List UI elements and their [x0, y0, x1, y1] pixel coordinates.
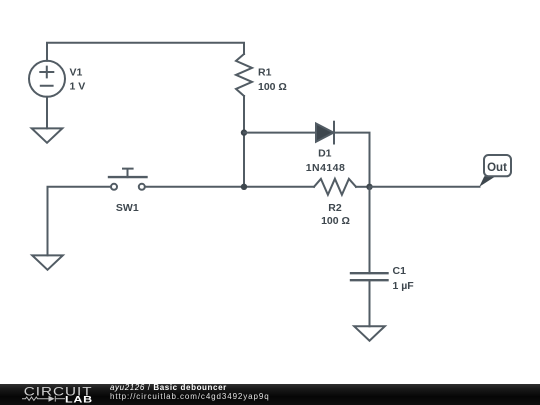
wire top rail from V1 to R1 — [47, 43, 244, 61]
footer bar — [0, 384, 540, 405]
ground under V1 — [32, 128, 63, 142]
svg-text:C1: C1 — [393, 265, 407, 277]
svg-text:R1: R1 — [258, 67, 272, 79]
resistor R1 — [236, 54, 252, 96]
capacitor C1 — [351, 273, 388, 280]
wire V1 bottom to ground — [46, 97, 48, 129]
switch SW1 — [109, 169, 147, 190]
wire switch left to ground drop — [48, 187, 111, 256]
resistor R2 — [314, 179, 356, 195]
ground under C1 — [354, 326, 385, 340]
node junction at R1/diode branch — [241, 129, 247, 135]
svg-text:V1: V1 — [70, 66, 83, 78]
wire diode branch left — [244, 132, 316, 134]
node junction at switch line — [241, 184, 247, 190]
wire node to Out flag — [370, 186, 480, 188]
svg-text:100 Ω: 100 Ω — [321, 215, 350, 227]
svg-text:R2: R2 — [328, 202, 342, 214]
wire C1 bottom to ground — [369, 280, 371, 326]
wire R2 right to node — [356, 186, 370, 188]
svg-text:LAB: LAB — [65, 395, 93, 405]
footer credit line — [110, 383, 227, 393]
wire node down to C1 — [369, 187, 371, 273]
footer url line — [110, 392, 270, 402]
wire switch right to node — [145, 186, 244, 188]
wire main line from node to R2 — [244, 186, 314, 188]
svg-text:SW1: SW1 — [116, 202, 139, 214]
wire R1 bottom down to main line — [243, 96, 245, 187]
svg-text:1 V: 1 V — [70, 80, 86, 92]
CircuitLab logo — [0, 384, 100, 405]
svg-text:Out: Out — [487, 162, 507, 174]
svg-text:1N4148: 1N4148 — [306, 162, 345, 174]
svg-text:100 Ω: 100 Ω — [258, 81, 287, 93]
net flag Out — [479, 155, 511, 187]
svg-text:D1: D1 — [318, 148, 332, 160]
svg-text:1 µF: 1 µF — [393, 280, 415, 292]
node junction at right rail — [366, 184, 372, 190]
voltage source V1 — [29, 61, 65, 97]
ground under switch wire — [32, 255, 63, 269]
diode D1 — [316, 122, 334, 144]
wire diode cathode to right rail corner — [334, 133, 370, 187]
